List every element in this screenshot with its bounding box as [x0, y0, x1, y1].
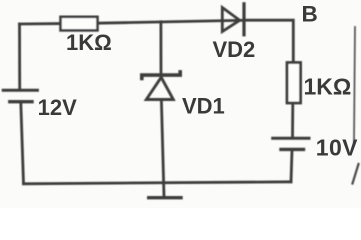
wire left vertical upper [18, 24, 21, 90]
wire right resistor to 10V battery [291, 103, 294, 138]
svg-text:12V: 12V [38, 95, 77, 120]
resistor R1 1KΩ [61, 17, 98, 31]
wire 10V battery to bottom-right corner [291, 151, 292, 182]
wire VD2 to node B corner down to resistor [244, 20, 293, 62]
wire VD1 to ground [161, 101, 164, 197]
svg-text:B: B [302, 2, 318, 27]
resistor right 1KΩ [287, 63, 301, 104]
svg-text:10V: 10V [316, 135, 358, 161]
wire top-left horizontal [20, 22, 62, 25]
svg-text:1KΩ: 1KΩ [304, 73, 352, 99]
battery 12V [3, 90, 37, 101]
wire bottom horizontal [24, 182, 292, 184]
battery 10V [273, 138, 309, 149]
svg-text:VD2: VD2 [213, 37, 256, 62]
wire R1 to VD2 [97, 20, 244, 23]
svg-text:VD1: VD1 [182, 94, 225, 119]
zener diode VD1 [142, 72, 180, 100]
svg-text:1KΩ: 1KΩ [66, 30, 112, 55]
wire middle junction to VD1 [159, 22, 162, 75]
ground [149, 196, 181, 199]
wire left vertical lower [21, 103, 24, 184]
diode VD2 [222, 4, 244, 35]
scan artifacts (unlabeled) [354, 27, 355, 142]
